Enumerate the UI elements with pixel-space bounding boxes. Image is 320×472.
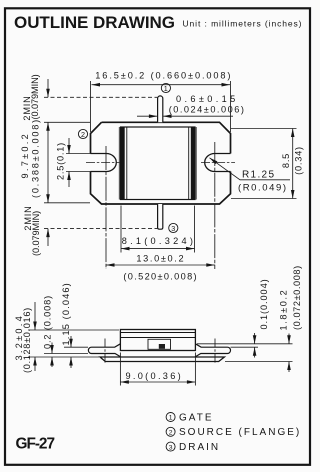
svg-text:(0.388±0.008): (0.388±0.008)	[31, 119, 41, 198]
left hole centerline (side view)	[104, 339, 106, 365]
svg-text:0.1(0.004): 0.1(0.004)	[259, 279, 269, 330]
legend pin 2 source	[166, 427, 301, 438]
drain lead (bottom)	[158, 204, 163, 229]
svg-text:3: 3	[169, 444, 173, 451]
cap inner line	[120, 337, 195, 339]
cap top double line	[120, 332, 195, 334]
pin marker 2 (source flange)	[78, 129, 87, 138]
dimension 16.5±0.2	[91, 81, 231, 132]
left slot (source hole)	[91, 154, 117, 172]
svg-text:1.15 (0.046): 1.15 (0.046)	[61, 283, 71, 346]
dimension 3.2 overall height	[28, 302, 119, 371]
svg-text:(0.072±0.008): (0.072±0.008)	[292, 265, 302, 330]
flange outline (top view)	[91, 122, 231, 204]
svg-text:0.6±0.15: 0.6±0.15	[176, 94, 236, 104]
svg-text:GF-27: GF-27	[16, 436, 56, 453]
flange bar (side view)	[100, 357, 224, 362]
cap right dark band	[191, 127, 195, 200]
left hole vertical centerline / 13.0 extension	[105, 146, 107, 269]
svg-text:(0.128±0.016): (0.128±0.016)	[22, 307, 32, 373]
svg-text:(R0.049): (R0.049)	[238, 183, 286, 194]
cap left dark band	[121, 127, 125, 200]
svg-text:(0.024±0.006): (0.024±0.006)	[169, 104, 245, 114]
left hole horizontal centerline	[86, 162, 120, 164]
dimension 8.1 cap width	[121, 206, 195, 253]
dimension 1.8 lead height	[225, 334, 293, 373]
dimension 8.5 cap height	[231, 129, 297, 199]
dimension 9.0 cap length	[120, 353, 195, 386]
svg-text:R1.25: R1.25	[242, 170, 274, 181]
R1.25 hole radius leader	[210, 158, 291, 180]
svg-text:DRAIN: DRAIN	[179, 442, 220, 453]
svg-text:SOURCE (FLANGE): SOURCE (FLANGE)	[179, 427, 301, 438]
gate lead (top)	[158, 96, 163, 122]
svg-text:(0.520±0.008): (0.520±0.008)	[123, 272, 197, 282]
svg-text:9.0(0.36): 9.0(0.36)	[126, 371, 182, 381]
cap outline (top view)	[121, 127, 196, 200]
svg-text:13.0±0.2: 13.0±0.2	[136, 254, 184, 264]
right slot (source hole)	[205, 154, 231, 172]
dimension 0.2	[44, 343, 88, 368]
cap inner wall lines	[127, 127, 189, 200]
dimension 0.1 lead thickness	[197, 333, 293, 358]
dimension 13.0 hole spacing	[106, 264, 215, 266]
svg-text:Unit : millimeters (inches): Unit : millimeters (inches)	[183, 19, 302, 29]
right hole centerline (side view)	[214, 339, 216, 365]
legend pin 3 drain	[166, 442, 220, 453]
svg-text:OUTLINE DRAWING: OUTLINE DRAWING	[14, 13, 175, 32]
right hole horizontal centerline	[201, 162, 235, 164]
svg-text:(0.34): (0.34)	[294, 146, 304, 175]
dimension 1.15	[64, 336, 88, 368]
cap inner dark mark	[159, 344, 165, 349]
svg-text:2: 2	[81, 130, 85, 139]
svg-text:3: 3	[171, 224, 175, 233]
svg-text:9.7±0.2: 9.7±0.2	[20, 134, 30, 179]
left dimension stack 2MIN / 9.7 / 2MIN	[44, 79, 157, 246]
svg-text:2: 2	[169, 430, 173, 437]
svg-text:16.5±0.2 (0.660±0.008): 16.5±0.2 (0.660±0.008)	[95, 71, 231, 81]
svg-text:(0.079MIN): (0.079MIN)	[31, 210, 41, 256]
svg-text:8.5: 8.5	[281, 153, 291, 168]
slot extension lines	[66, 154, 91, 172]
svg-text:1: 1	[164, 84, 168, 93]
cap box (side view)	[120, 330, 195, 351]
dimension 0.6±0.15 (gate lead width)	[137, 115, 233, 117]
cap inner rect	[148, 339, 171, 349]
svg-text:1: 1	[169, 415, 173, 422]
right hole vertical centerline / 13.0 extension	[214, 142, 216, 269]
dimension 2.5 slot width	[68, 138, 70, 187]
svg-text:0.2 (0.008): 0.2 (0.008)	[43, 295, 53, 349]
pin marker 3 (drain)	[169, 223, 178, 232]
pin marker 1 (gate)	[161, 83, 170, 93]
right lead (side view)	[195, 344, 231, 357]
svg-text:8.1(0.324): 8.1(0.324)	[122, 236, 194, 246]
svg-text:1.8±0.2: 1.8±0.2	[279, 290, 289, 331]
legend pin 1 gate	[166, 412, 213, 423]
svg-text:(0.079MIN): (0.079MIN)	[30, 74, 40, 120]
svg-text:GATE: GATE	[179, 412, 213, 423]
svg-text:2.5(0.1): 2.5(0.1)	[56, 142, 66, 180]
left lead (side view)	[88, 344, 121, 357]
